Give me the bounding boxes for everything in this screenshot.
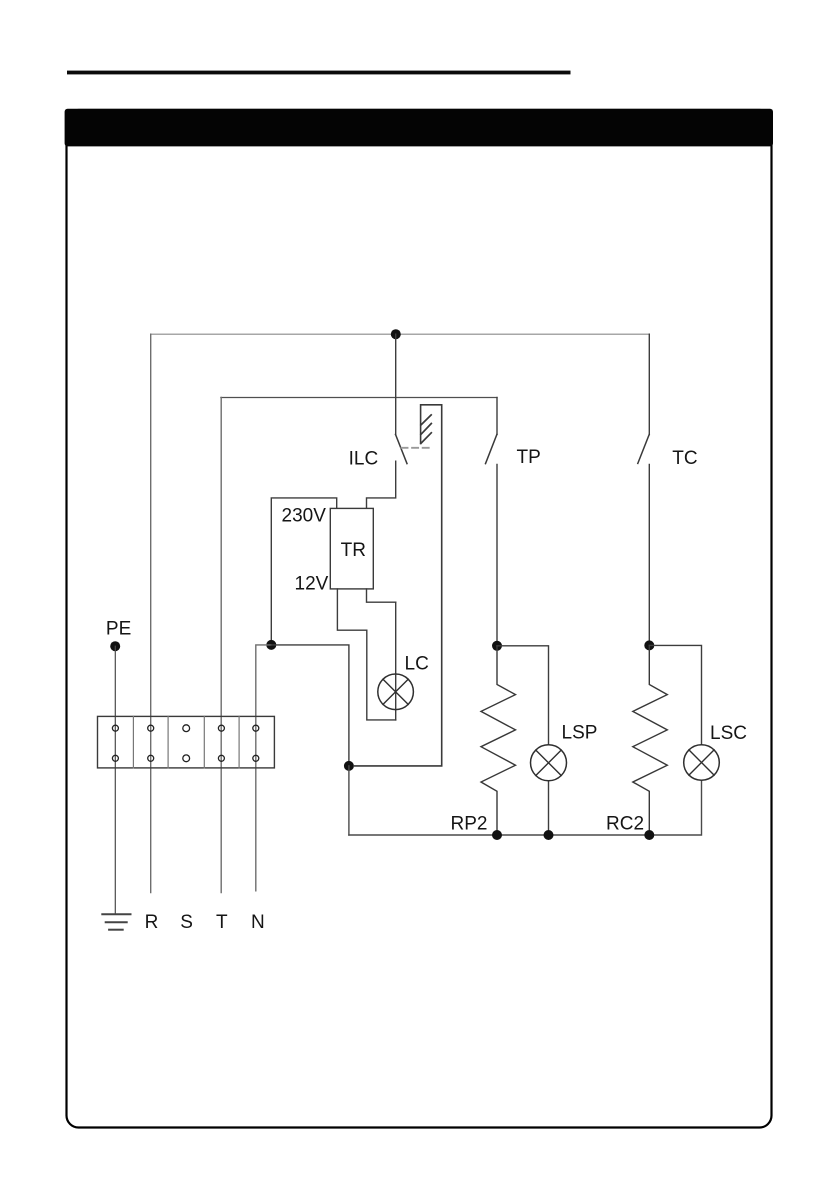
node: 230V junction — [266, 640, 276, 650]
dashed mechanical link — [402, 447, 432, 449]
node: RP2 rail junction — [492, 830, 502, 840]
wire: top supply rail — [151, 333, 650, 335]
wire: LSC branch — [649, 645, 701, 744]
header bar — [65, 109, 773, 147]
diagram frame — [67, 110, 772, 1128]
ground symbol — [102, 914, 130, 929]
node: top rail junction — [391, 329, 401, 339]
wire: down to bottom rail — [348, 766, 350, 835]
node: RC2 rail junction — [644, 830, 654, 840]
terminal block dividers — [133, 716, 239, 768]
switch TP blade — [486, 434, 497, 463]
node: TC junction — [644, 640, 654, 650]
svg-text:LC: LC — [405, 653, 429, 674]
node: LC loop junction — [344, 761, 354, 771]
svg-text:LSC: LSC — [710, 723, 747, 744]
wire: TR secondary lead A — [337, 589, 395, 720]
resistor RC2 — [633, 645, 668, 835]
svg-text:T: T — [216, 912, 228, 933]
wire: LC lamp branch — [395, 602, 397, 720]
wire: TR secondary lead B — [367, 589, 396, 602]
resistor RP2 — [481, 646, 516, 835]
svg-text:TR: TR — [341, 540, 366, 561]
svg-text:TC: TC — [672, 448, 697, 469]
wire: PE earth lead — [114, 646, 116, 913]
wire: TP lower contact — [496, 465, 498, 646]
svg-text:N: N — [251, 912, 265, 933]
switch ILC blade — [396, 434, 408, 463]
node PE terminal dot — [110, 641, 120, 651]
wire: T phase drop — [220, 398, 222, 893]
svg-text:ILC: ILC — [349, 449, 379, 470]
wire: second rail — [221, 397, 497, 399]
transformer TR box — [330, 508, 373, 589]
lamp LC — [378, 674, 414, 710]
wire: TC lower contact — [648, 465, 650, 646]
svg-text:230V: 230V — [282, 506, 327, 527]
title rule — [67, 71, 571, 75]
wire: 230V primary left lead — [271, 498, 336, 645]
wire: junction to LC loop — [271, 645, 349, 766]
lamp LSC — [684, 745, 720, 781]
wire: bottom return rail — [349, 780, 702, 835]
wire: neutral jog to N terminal — [256, 645, 271, 891]
ILC lamp actuator (hatched box) — [354, 405, 442, 766]
node: LSP rail junction — [544, 830, 554, 840]
wire: TC feed — [648, 334, 650, 434]
svg-text:RC2: RC2 — [606, 814, 644, 835]
wire: LSP branch — [497, 646, 549, 835]
terminal screws — [112, 725, 258, 762]
node: TP junction — [492, 641, 502, 651]
svg-text:R: R — [145, 912, 159, 933]
svg-text:RP2: RP2 — [451, 814, 488, 835]
wire: R phase drop — [150, 334, 152, 892]
wire: ILC feed — [395, 334, 397, 434]
terminal block outline — [98, 716, 275, 768]
svg-text:S: S — [180, 912, 193, 933]
svg-text:PE: PE — [106, 618, 131, 639]
switch TC blade — [638, 435, 649, 464]
svg-text:TP: TP — [517, 447, 541, 468]
wire: ILC lower contact to TR primary — [367, 461, 396, 508]
wire: TP feed — [496, 398, 498, 435]
svg-text:12V: 12V — [295, 573, 329, 594]
lamp LSP — [531, 745, 567, 781]
svg-text:LSP: LSP — [562, 722, 598, 743]
